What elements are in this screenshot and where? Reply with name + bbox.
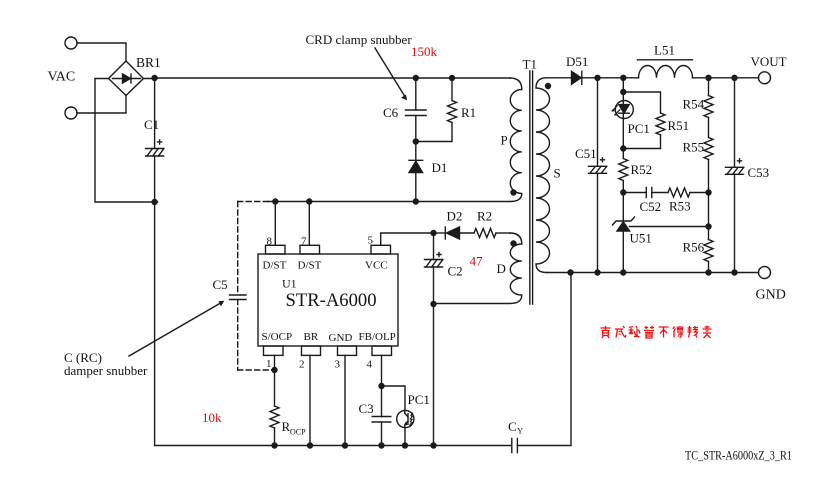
wire secondary bottom rail [547, 272, 759, 274]
pin 1 box [264, 346, 284, 355]
node junction C6-R1 bottom [413, 138, 419, 144]
resistor R52 [619, 149, 628, 193]
svg-text:R2: R2 [477, 209, 492, 224]
svg-text:GND: GND [329, 332, 353, 344]
inductor L51 [638, 60, 693, 78]
dashed box C5 damper snubber [238, 202, 275, 371]
phase dot auxiliary [510, 240, 516, 246]
svg-text:47: 47 [470, 254, 484, 269]
node junction rail pin3 [342, 442, 348, 448]
svg-text:2: 2 [299, 359, 305, 371]
svg-text:8: 8 [267, 236, 273, 248]
svg-text:C51: C51 [575, 146, 597, 161]
capacitor C53 (polarized) [726, 78, 744, 273]
capacitor CY [512, 439, 518, 453]
svg-text:VOUT: VOUT [751, 54, 787, 69]
svg-text:C53: C53 [748, 165, 770, 180]
node junction U51 ref divider [705, 223, 711, 229]
bridge rectifier BR1 [109, 61, 144, 96]
svg-text:R52: R52 [631, 162, 653, 177]
node junction pin8 rail [272, 198, 278, 204]
node junction rail pin2 [307, 442, 313, 448]
node junction rail C3 [378, 442, 384, 448]
node junction R51 bottom [620, 145, 626, 151]
IC U1 STR-A6000 body [258, 254, 398, 346]
pin 2 box [302, 346, 321, 355]
wire C3 lower lead [381, 422, 383, 446]
node junction pin1 dashed [271, 367, 277, 373]
resistor ROCP [270, 406, 279, 446]
svg-text:7: 7 [301, 236, 307, 248]
node junction ground CY [567, 269, 573, 275]
resistor R51 [623, 92, 665, 149]
label watermark Chinese red text (黄成秘籍不得转卖) [601, 326, 712, 339]
phase dot secondary [545, 83, 551, 89]
node junction R51 top [620, 89, 626, 95]
svg-text:D51: D51 [566, 54, 588, 69]
wire C6 upper lead [415, 78, 417, 110]
capacitor C52 [646, 188, 652, 198]
wire drain rail (primary bottom) [268, 201, 509, 203]
wire D51 to L51 [582, 77, 639, 79]
svg-text:C1: C1 [144, 117, 159, 132]
node junction R1 top [449, 75, 455, 81]
node junction D1 anode rail [413, 198, 419, 204]
wire top rail from BR1 to transformer [144, 77, 511, 80]
svg-text:PC1: PC1 [628, 121, 650, 136]
resistor R1 [416, 78, 457, 142]
wire C1 lower lead + left bottom rail [155, 156, 512, 446]
wire pin 1 to ROCP [274, 355, 276, 406]
wire pin4 to PC1 transistor [382, 386, 406, 410]
wire pin 2 down [309, 355, 311, 445]
svg-text:PC1: PC1 [408, 392, 430, 407]
node junction C52 branch [620, 189, 626, 195]
pin 4 box [372, 346, 392, 355]
svg-text:TC_STR-A6000xZ_3_R1: TC_STR-A6000xZ_3_R1 [685, 448, 792, 463]
capacitor C51 (polarized) [589, 78, 607, 273]
transformer T1 secondary winding S [536, 78, 550, 273]
svg-text:10k: 10k [202, 410, 222, 425]
svg-text:1: 1 [266, 358, 272, 370]
node junction PC1 LED top [620, 75, 626, 81]
svg-text:Y: Y [517, 426, 523, 436]
node junction C2 bottom / D winding return [430, 301, 436, 307]
node junction BR1 right [151, 75, 157, 81]
pin 3 box [338, 346, 357, 355]
svg-text:D: D [497, 261, 506, 276]
transformer T1 core [530, 71, 533, 304]
node junction rail C2 line [430, 442, 436, 448]
capacitor C1 (polarized) [146, 140, 164, 156]
node junction R54 top [705, 75, 711, 81]
wire pin 7 to drain rail [308, 202, 310, 246]
capacitor C3 [372, 417, 391, 423]
wire pin 5 VCC [381, 233, 434, 245]
svg-text:4: 4 [367, 359, 373, 371]
svg-text:C6: C6 [383, 105, 399, 120]
arrow CRD snubber pointer [375, 48, 407, 100]
node junction VCC [430, 230, 436, 236]
node junction C51 top [594, 75, 600, 81]
resistor R54 [704, 78, 713, 138]
terminal VOUT [759, 72, 771, 84]
svg-text:S/OCP: S/OCP [262, 331, 293, 343]
opto LED PC1 [611, 78, 633, 149]
capacitor C6 [406, 110, 427, 116]
phase dot primary [510, 189, 516, 195]
wire pin 3 down [344, 355, 346, 445]
svg-text:R53: R53 [669, 199, 691, 214]
wire C1 upper lead [154, 78, 156, 149]
svg-text:C5: C5 [213, 277, 228, 292]
svg-text:R1: R1 [461, 105, 476, 120]
wire to C52 [623, 192, 646, 194]
diode D1 [409, 142, 423, 202]
diode D51 [572, 71, 582, 84]
wire secondary top to D51 [547, 77, 572, 79]
opto transistor PC1 [397, 410, 414, 427]
node junction rail pin1 [271, 442, 277, 448]
wire VAC top to BR1 [77, 43, 126, 61]
wire L51 to VOUT [693, 77, 759, 79]
svg-text:VCC: VCC [365, 260, 388, 272]
wire C6 lower lead [415, 116, 417, 142]
svg-text:VAC: VAC [48, 70, 76, 85]
node junction C53 top [731, 75, 737, 81]
wire pin 8 to drain rail [274, 202, 276, 246]
svg-text:R55: R55 [683, 140, 705, 155]
node junction C51 bottom [594, 269, 600, 275]
svg-text:STR-A6000: STR-A6000 [286, 291, 377, 311]
svg-text:5: 5 [368, 235, 374, 247]
node junction C6 top [413, 75, 419, 81]
svg-text:OCP: OCP [290, 428, 306, 437]
svg-text:U51: U51 [630, 231, 652, 246]
svg-text:R54: R54 [683, 97, 705, 112]
transformer T1 auxiliary winding D [434, 233, 522, 304]
svg-text:P: P [501, 133, 508, 148]
svg-text:C2: C2 [448, 264, 463, 279]
svg-text:FB/OLP: FB/OLP [359, 331, 396, 343]
wire CY right to secondary ground [517, 273, 571, 446]
node junction R56 bottom [705, 269, 711, 275]
svg-text:C52: C52 [640, 199, 662, 214]
wire BR1 left loop down [95, 79, 158, 203]
resistor R2 [460, 229, 511, 238]
arrow damper snubber pointer [129, 301, 224, 356]
svg-text:R51: R51 [668, 118, 690, 133]
node junction pin4 branch [378, 383, 384, 389]
capacitor C2 (polarized) [425, 233, 443, 446]
resistor R56 [704, 240, 713, 273]
diode D2 [445, 227, 459, 239]
terminal VAC top [65, 37, 77, 49]
node junction pin7 rail [306, 198, 312, 204]
wire pin 4 down + C3 [381, 355, 383, 416]
node junction U51 bottom [620, 269, 626, 275]
svg-text:GND: GND [756, 288, 786, 303]
wire VCC node to D2 [434, 232, 446, 234]
svg-text:BR: BR [304, 331, 319, 343]
wire VAC bottom to BR1 [77, 95, 126, 113]
svg-text:R56: R56 [683, 240, 705, 255]
node junction rail PC1 [402, 442, 408, 448]
svg-text:BR1: BR1 [136, 55, 161, 70]
svg-text:D/ST: D/ST [298, 260, 322, 272]
node junction C1 bottom [151, 199, 157, 205]
svg-text:D/ST: D/ST [263, 260, 287, 272]
wire PC1 emitter down [404, 428, 406, 446]
pin 8 box [266, 245, 286, 254]
svg-text:C: C [508, 419, 517, 434]
svg-text:C3: C3 [359, 401, 374, 416]
transformer T1 primary winding P [510, 78, 522, 202]
terminal VAC bottom [65, 107, 77, 119]
svg-text:CRD clamp snubber: CRD clamp snubber [306, 32, 413, 47]
svg-text:L51: L51 [654, 43, 675, 58]
resistor R53 [652, 188, 709, 197]
shunt regulator U51 [613, 193, 709, 273]
terminal GND [759, 267, 771, 279]
svg-text:3: 3 [335, 359, 341, 371]
pin 7 box [300, 245, 320, 254]
svg-text:damper snubber: damper snubber [64, 363, 148, 378]
capacitor C5 [230, 295, 247, 300]
svg-text:T1: T1 [523, 57, 537, 72]
svg-text:D2: D2 [447, 209, 463, 224]
resistor R55 [704, 138, 713, 240]
svg-text:S: S [554, 166, 561, 181]
node junction C53 bottom [731, 269, 737, 275]
pin 5 box [371, 245, 391, 254]
svg-text:150k: 150k [411, 44, 438, 59]
svg-text:U1: U1 [282, 277, 297, 291]
node junction R53 divider [705, 189, 711, 195]
svg-text:D1: D1 [432, 160, 448, 175]
